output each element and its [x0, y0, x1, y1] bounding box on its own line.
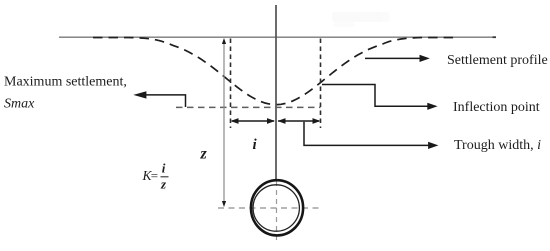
max settlement level dashed line	[176, 106, 321, 108]
svg-text:i: i	[253, 137, 258, 153]
depth dimension line z	[222, 38, 226, 207]
svg-text:Maximum settlement,: Maximum settlement,	[4, 75, 127, 90]
centerline dashed inside tunnel	[276, 181, 278, 240]
leader: settlement profile	[365, 55, 430, 62]
faint watermark ghost	[332, 12, 390, 27]
tunnel lining inner ring	[253, 185, 299, 231]
trough half-width dimension arrow right	[278, 118, 321, 124]
svg-text:Smax: Smax	[4, 97, 35, 112]
tunnel centerline (vertical)	[275, 5, 277, 180]
leader: trough width	[304, 122, 438, 149]
svg-text:=: =	[151, 168, 158, 183]
trough half-width dimension arrow left	[231, 118, 276, 124]
svg-text:z: z	[160, 176, 167, 191]
inflection marker right (dashed vertical)	[320, 39, 322, 129]
svg-text:Trough width, i: Trough width, i	[454, 138, 541, 153]
settlement trough curve (dashed Gaussian)	[93, 38, 455, 105]
inflection marker left (dashed vertical)	[230, 39, 232, 129]
ground surface line	[59, 36, 496, 38]
tunnel outer ring	[251, 180, 303, 235]
leader: inflection point	[322, 85, 438, 110]
leader: maximum settlement	[133, 91, 185, 107]
svg-text:Inflection point: Inflection point	[453, 100, 540, 115]
svg-text:i: i	[162, 161, 166, 176]
ground line end tick	[493, 36, 497, 38]
svg-text:Settlement profile: Settlement profile	[447, 53, 548, 68]
svg-text:z: z	[200, 146, 208, 163]
tunnel axis dashed line	[218, 207, 320, 209]
formula K = i/z	[142, 161, 169, 192]
